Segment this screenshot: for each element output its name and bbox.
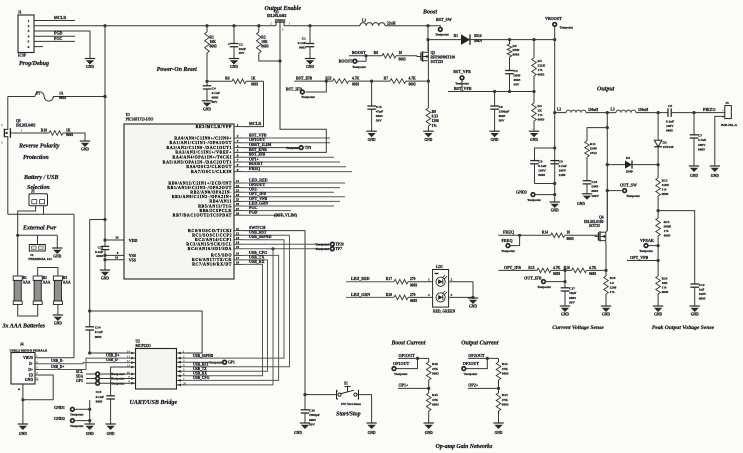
svg-text:GND: GND [654,313,662,317]
testpoint BST_IFB [286,80,328,100]
junction U2 VDD rail [88,309,91,312]
battery B2 [33,276,51,305]
testpoint FREQ [501,235,519,253]
wire SDA down to U2 [182,249,273,385]
svg-text:0603: 0603 [251,83,258,87]
wire net USB_RST [182,230,290,367]
svg-text:11: 11 [236,227,239,231]
svg-text:Testpoint: Testpoint [286,146,300,150]
svg-text:R12: R12 [662,178,668,182]
svg-text:10nF: 10nF [569,291,576,295]
wire to S1 [305,394,337,396]
svg-text:Testpoint: Testpoint [537,285,551,289]
svg-text:Boost Current: Boost Current [391,341,426,347]
wire L3 to C5 [636,112,668,114]
svg-text:C14: C14 [95,326,101,330]
svg-text:0603: 0603 [538,73,545,77]
inductor L1 22uH [360,18,396,25]
wire ext rail to VBUS column [8,213,74,215]
wire S1 to GND [357,395,372,423]
svg-text:USB_RX: USB_RX [193,372,207,376]
svg-text:GND: GND [551,209,559,213]
svg-text:RC7/AN18/RX/DT: RC7/AN18/RX/DT [192,262,232,267]
capacitor C14 0.1uF [85,326,103,353]
resistor R5 DNP [507,40,519,57]
wire net MCLR to R6 [243,81,264,126]
svg-text:R26: R26 [432,362,438,366]
resistor R17 270 [386,277,418,287]
svg-text:150uH: 150uH [638,108,648,112]
svg-text:GND: GND [19,432,27,436]
svg-text:25V: 25V [239,51,245,55]
junction peak divider top [657,209,660,212]
svg-text:B1: B1 [23,276,27,280]
svg-text:USB_D+: USB_D+ [51,365,64,369]
svg-text:0.1uF: 0.1uF [96,395,104,399]
svg-text:Current Voltage Sense: Current Voltage Sense [552,325,604,331]
svg-text:GND: GND [491,138,499,142]
resistor R13 560K [656,211,672,276]
svg-text:1%: 1% [664,229,670,233]
svg-text:RB7/DAC1OUT2/ICSPDAT: RB7/DAC1OUT2/ICSPDAT [173,213,232,218]
svg-text:J3: J3 [725,101,729,105]
svg-text:12: 12 [236,231,240,235]
wire R15 to R16 [551,269,572,271]
wire to U2 pin14 [90,352,131,354]
resistor R2 10K [257,32,269,53]
svg-text:C2: C2 [239,42,243,46]
svg-text:C13: C13 [96,390,102,394]
svg-text:GND: GND [86,432,94,436]
svg-text:0603: 0603 [662,290,669,294]
wire PIC VSS pins [103,250,124,270]
svg-text:Op-amp Gain Networks: Op-amp Gain Networks [436,444,493,450]
svg-text:S1: S1 [344,382,348,386]
wire net USB_CFG [182,250,279,381]
svg-text:SCL: SCL [76,370,84,374]
wire net SDA to TP7 [243,247,342,251]
svg-text:18: 18 [236,261,240,265]
svg-text:14: 14 [236,240,240,244]
svg-text:22uH: 22uH [387,21,396,25]
svg-text:20: 20 [115,235,119,239]
wire J1 pin2 to VDD rail [34,25,105,27]
svg-text:GND: GND [691,313,699,317]
svg-text:100V: 100V [666,124,674,128]
capacitor C1 0.1uF [298,26,315,59]
svg-text:0603: 0603 [553,272,560,276]
svg-text:0805: 0805 [666,129,673,133]
svg-text:GND1: GND1 [54,405,65,410]
wire VBOOST vertical [554,40,556,113]
wire Q4 drain up [606,191,608,233]
svg-text:19: 19 [115,255,119,259]
svg-text:R25: R25 [432,393,438,397]
svg-text:L2: L2 [557,108,561,112]
svg-text:0603: 0603 [309,418,316,422]
svg-text:Start/Stop: Start/Stop [336,411,361,417]
svg-text:270: 270 [410,277,416,281]
svg-text:0603: 0603 [409,83,416,87]
svg-text:GND: GND [577,202,585,206]
diode D3 DNP [625,156,633,173]
transistor Q2 boost NFET [417,51,455,64]
svg-text:(BST_VLIM): (BST_VLIM) [274,213,298,218]
svg-text:Testpoint: Testpoint [352,65,366,69]
wire net BST_VFB stub [243,132,330,138]
svg-text:BST_VFB: BST_VFB [453,69,471,74]
svg-text:L3: L3 [611,108,615,112]
wire B1 B2 bottoms [18,305,38,317]
wire net OPT_VFB stub [243,196,340,202]
svg-text:D1: D1 [454,34,459,38]
svg-text:0603: 0603 [699,297,706,301]
svg-text:C4: C4 [212,87,216,91]
svg-text:2: 2 [28,24,30,28]
ground GND at C17 [560,306,570,317]
svg-text:R2: R2 [261,35,266,39]
svg-text:1%: 1% [610,290,616,294]
svg-text:16: 16 [236,252,240,256]
svg-text:OP2OUT: OP2OUT [463,361,480,366]
resistor R11 DNP [585,141,597,157]
capacitor C6 1500pF [490,92,509,132]
label Prog/Debug [19,61,49,67]
svg-text:47K: 47K [502,398,508,402]
svg-text:L1: L1 [362,18,366,22]
svg-text:50V: 50V [569,300,575,304]
svg-text:RC4/AN16/SDI/SDA: RC4/AN16/SDI/SDA [188,246,232,251]
wire R2 top [258,26,260,32]
svg-text:C1: C1 [302,36,306,40]
wire net USB_RX label [193,372,207,376]
svg-text:0603: 0603 [261,45,268,49]
wire switch node down [427,26,429,52]
ground GND at J1 [85,59,95,70]
capacitor C5 0.1uF series [666,104,674,133]
wire ID to GND [23,375,53,400]
svg-text:B3: B3 [63,276,67,280]
label Current Voltage Sense [552,325,604,331]
svg-text:13: 13 [236,236,240,240]
svg-text:Testpoint: Testpoint [464,372,478,376]
svg-text:R11: R11 [590,142,596,146]
svg-text:RE3/MCLR/VPP: RE3/MCLR/VPP [196,124,232,129]
wire R20 to LD1 [408,293,433,297]
svg-text:GND3: GND3 [516,190,527,195]
junction output mid node [606,111,609,114]
wire net USB_RX [182,259,265,376]
svg-text:1%: 1% [662,188,668,192]
svg-text:0603: 0603 [589,272,596,276]
resistor R19 10K [656,276,669,306]
svg-text:6: 6 [28,45,30,49]
svg-text:VBOOST: VBOOST [545,16,562,21]
switch S1 tact [337,382,362,406]
svg-text:GND: GND [54,322,62,326]
ground GND at C16 [294,423,310,435]
ground GND at C2 [229,59,239,70]
resistor R7 4.7K [384,77,416,87]
wire Q5 gate to R21 [13,128,49,133]
wire B2 B3 tops [38,268,58,277]
svg-text:221K: 221K [538,63,546,67]
svg-text:4: 4 [28,34,30,38]
svg-text:SW Tact 6mm: SW Tact 6mm [341,402,361,406]
ground GND at S1 [366,423,376,435]
wire battery node to terminal [18,235,58,248]
junction D1 tap [426,38,429,41]
junction sense node [427,80,430,83]
connector J3 piezo [721,101,738,127]
svg-text:GND: GND [368,138,376,142]
svg-text:0603: 0603 [95,335,102,339]
junction output node [657,111,660,114]
wire D1 cathode to VBOOST [470,39,555,41]
svg-text:MCLR: MCLR [54,15,66,20]
svg-text:GND: GND [469,305,477,309]
svg-text:Q4: Q4 [599,215,604,219]
wire R2 bottom to gate node [259,53,280,61]
ground GND at C12 [690,306,700,317]
junction C8 top [553,146,556,149]
wire C4 to GND [206,89,208,101]
capacitor C9 2.2uF [550,159,566,177]
svg-text:GND: GND [368,431,376,435]
wire Q2 drain [427,40,429,53]
svg-text:Testpoint: Testpoint [394,372,408,376]
svg-text:GND: GND [602,313,610,317]
svg-text:C12: C12 [699,283,705,287]
svg-text:J4: J4 [20,342,24,346]
svg-text:Prog/Debug: Prog/Debug [19,61,49,67]
svg-text:1K: 1K [251,77,256,81]
wire D1 anode [428,39,461,41]
wire net OP2 minus stub [243,187,334,193]
wire Q5 drain [7,97,9,128]
wire to C12 [658,211,695,284]
svg-text:17: 17 [236,256,240,260]
label UART USB Bridge [130,400,178,406]
inductor L2 150uH [557,108,598,113]
battery B3 [53,276,71,305]
svg-text:0603: 0603 [399,57,406,61]
svg-text:GP1: GP1 [228,360,235,364]
svg-text:4.7K: 4.7K [589,266,596,270]
label PIEZO [703,107,715,112]
svg-text:R6: R6 [225,77,230,81]
svg-text:OP1OUT: OP1OUT [393,361,410,366]
svg-text:OP2OUT: OP2OUT [468,353,485,358]
svg-text:5: 5 [28,40,30,44]
svg-text:1.0: 1.0 [610,281,615,285]
label Reverse Polarity [18,143,60,149]
svg-text:28: 28 [236,211,240,215]
capacitor C3 DNP [505,57,520,92]
wire net LED_GRN stub [243,200,334,206]
svg-text:0.1uF: 0.1uF [298,41,306,45]
svg-text:GND: GND [425,431,433,435]
svg-text:GND: GND [294,431,302,435]
svg-text:FREQ: FREQ [503,230,514,235]
svg-text:SOT223: SOT223 [431,60,444,64]
svg-text:1%: 1% [538,113,544,117]
svg-text:OPT_IFB: OPT_IFB [504,265,521,270]
LED LD1 red green [433,265,456,313]
svg-text:C11: C11 [98,245,104,249]
capacitor C8 0.1uF [530,159,546,183]
svg-text:47pF: 47pF [376,109,383,113]
svg-text:R3: R3 [538,59,542,63]
wire VBUS column down [73,214,75,357]
svg-text:C10: C10 [591,180,597,184]
svg-text:VDD: VDD [129,238,138,243]
svg-text:C3: C3 [514,69,518,73]
svg-text:GND: GND [711,174,719,178]
svg-text:0603: 0603 [664,234,671,238]
svg-text:FREQ: FREQ [249,166,260,171]
svg-text:TP20: TP20 [336,243,344,247]
wire switch column down [606,128,608,231]
wire VBUS to selector [39,357,75,359]
junction VDD branch [103,218,106,221]
svg-text:1K: 1K [538,108,543,112]
testpoint GP1 [182,360,235,364]
wire B3 to GND [57,305,59,316]
svg-text:0603: 0603 [513,53,520,57]
wire C8 branch top [535,148,555,161]
wire testpoint GND bus [88,400,91,424]
svg-text:1206: 1206 [559,173,566,177]
junction C7 tap [692,111,695,114]
svg-text:D+: D+ [28,368,33,372]
ground GND at J3 [710,166,720,178]
resistor R4 1K [532,92,545,132]
ground GND at C11 [100,270,110,281]
junction C8 bottom [553,182,556,185]
wire D3 cathode [632,164,658,166]
svg-text:GND: GND [86,65,94,69]
svg-text:GND: GND [561,313,569,317]
svg-text:BOOST: BOOST [339,59,353,64]
junction D2 bottom [657,163,660,166]
wire R21 to GND [63,133,85,141]
svg-text:OP2+: OP2+ [468,382,479,387]
svg-text:100V: 100V [591,194,599,198]
label Power-On Reset [157,67,197,73]
wire net OPT_VFB [627,255,660,262]
svg-text:1nF: 1nF [699,287,705,291]
junction R11 corner [606,126,609,129]
wire net PGC stub [243,205,291,211]
wire VDD column [104,26,106,247]
wire net BOOST stub [243,161,346,167]
wire net FREQ line [498,230,550,237]
svg-text:0603: 0603 [66,133,73,137]
diode D2 1N4148 [654,113,673,165]
svg-text:Testpoint: Testpoint [639,249,653,253]
wire J3 pin2 to GND [715,116,725,166]
svg-text:2.2uF: 2.2uF [559,164,567,168]
svg-text:Testpoint: Testpoint [70,412,84,416]
ground GND at R18 [601,306,611,317]
svg-text:270: 270 [410,293,416,297]
label Protection [23,155,49,161]
svg-text:Testpoint: Testpoint [70,424,84,428]
resistor R9 0.33 [426,108,439,128]
junction input rail / VDD column [103,95,106,98]
junction MCLR RC node [205,80,208,83]
svg-text:R5: R5 [513,44,517,48]
svg-text:RA7/OSC1/CLKIN: RA7/OSC1/CLKIN [191,169,232,174]
svg-text:DNP: DNP [590,147,597,151]
connector J4 USB mini-B [10,342,48,392]
svg-text:10: 10 [399,51,403,55]
svg-text:25: 25 [236,198,240,202]
wire net LED_RED line [346,276,394,282]
svg-text:0603: 0603 [662,192,669,196]
label Boost [422,10,437,16]
capacitor C13 0.1uF [96,390,115,424]
svg-text:0.33: 0.33 [432,115,438,119]
junction PIC VDD pin [103,238,106,241]
svg-text:47K: 47K [432,398,438,402]
wire net SCL to TP20 [243,242,344,246]
ground GND at R21 [80,141,90,152]
wire net USB_TX [182,254,268,371]
resistor R21 1K [41,128,74,137]
svg-text:J1: J1 [18,10,22,14]
svg-text:TP3: TP3 [305,146,312,150]
wire C8 branch bottom [535,183,555,185]
svg-text:21: 21 [236,179,240,183]
svg-text:GND2: GND2 [54,416,65,421]
label 3x AAA Batteries [2,324,46,330]
svg-text:10K: 10K [662,281,668,285]
junction U2 pin14 node [88,351,91,354]
label Op-amp Gain Networks [436,444,493,450]
svg-text:1206: 1206 [432,119,439,123]
wire net BST_IFB stub [243,152,334,158]
svg-text:4.7K: 4.7K [553,266,560,270]
wire battery input rail [8,96,105,98]
svg-text:200V: 200V [698,143,706,147]
svg-text:AAA: AAA [43,281,51,285]
svg-text:R7: R7 [384,77,389,81]
svg-text:GND: GND [495,431,503,435]
svg-text:C15: C15 [376,105,382,109]
junction L2 in [553,111,556,114]
svg-text:USB_TX: USB_TX [193,367,207,371]
svg-text:Testpoint: Testpoint [435,32,449,36]
wire R16 to R18 node [587,269,606,271]
capacitor C4 0.1uF [203,86,220,104]
wire L1 to switch node [385,25,428,27]
wire net USB_SSPND [182,234,284,358]
wire net OP1 plus stub [243,156,340,162]
svg-text:R9: R9 [432,110,437,114]
svg-text:Output: Output [597,86,615,92]
svg-text:VBUS: VBUS [23,356,33,360]
svg-text:0.1uF: 0.1uF [538,164,546,168]
svg-text:0.1uF: 0.1uF [95,250,103,254]
svg-text:27: 27 [236,207,240,211]
wire battery node to B1 [17,235,19,276]
svg-text:22: 22 [236,184,240,188]
resistor R6 1K [225,77,258,87]
junction C16 node [303,393,306,396]
svg-text:Protection: Protection [23,155,49,161]
